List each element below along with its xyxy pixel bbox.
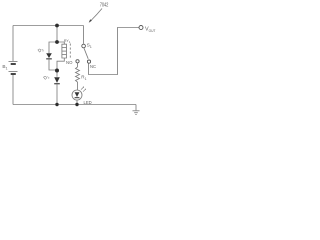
svg-text:NC: NC xyxy=(90,64,96,69)
svg-text:VOUT: VOUT xyxy=(145,27,155,34)
svg-text:B1: B1 xyxy=(2,64,7,70)
svg-text:S1: S1 xyxy=(87,43,92,49)
svg-text:R1: R1 xyxy=(81,75,86,81)
svg-text:NO: NO xyxy=(66,60,73,65)
svg-text:D1: D1 xyxy=(42,73,50,81)
svg-text:D2: D2 xyxy=(37,46,45,54)
svg-text:LED: LED xyxy=(84,100,92,105)
svg-text:RY1: RY1 xyxy=(64,39,71,44)
svg-text:7042: 7042 xyxy=(100,2,109,8)
